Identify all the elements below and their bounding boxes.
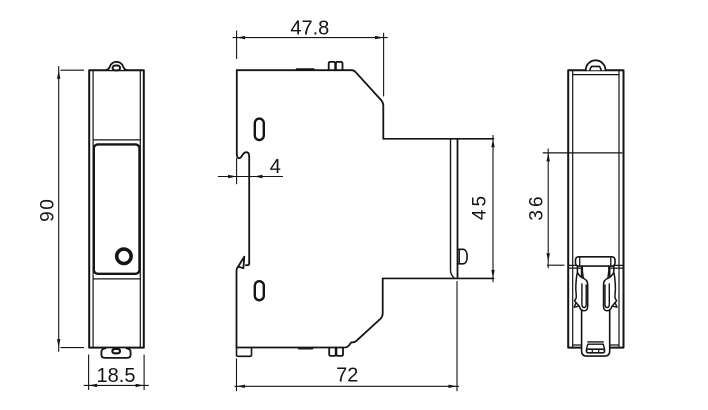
arrowheads dim 47.8 <box>237 36 246 39</box>
side view rear edge lower <box>237 267 239 348</box>
side view bottom seam bump <box>298 348 313 349</box>
arrowheads dim 72 <box>237 385 246 388</box>
rear view panel split line (36-dim top reference) <box>543 152 622 154</box>
dim 47.8 line <box>233 37 388 39</box>
arrowheads dim 90 <box>57 70 60 79</box>
side view face inner edge <box>451 139 455 278</box>
side view top-right chamfer diagonal <box>352 70 383 139</box>
dim 18.5 extension right <box>143 355 145 391</box>
arrowheads dim 4 (outside) <box>228 175 237 178</box>
side view rear edge middle (din slot top) <box>248 157 250 264</box>
svg-text:47.8: 47.8 <box>290 18 329 40</box>
front view inner left edge line <box>92 70 94 347</box>
side view cover clip bump inner line <box>458 249 460 263</box>
side view cover clip bump <box>458 249 468 263</box>
dim 72 extension left <box>236 359 238 392</box>
side view din clip spring triangle <box>238 257 244 269</box>
front view top ear slot <box>113 66 120 71</box>
side view lower oval slot <box>255 281 264 300</box>
rear view left spring side triangle <box>574 298 579 307</box>
side view upper oval slot <box>255 119 264 140</box>
dim 90 extension bottom <box>60 347 84 349</box>
rear view left prong slot <box>582 284 586 308</box>
dim 90 line <box>58 66 60 352</box>
dim 4 extension (left reuses body edge) <box>236 158 238 184</box>
rear view left prong inner stub <box>582 266 583 278</box>
side view bottom edge of face (also 45-dim bottom extension) <box>383 277 494 279</box>
rear view latch bottom bar <box>586 349 604 353</box>
rear view latch bar tick left <box>591 349 593 353</box>
side view rear step hook (4mm step) <box>237 152 249 158</box>
arrowheads dim 18.5 <box>89 384 98 387</box>
rear view inner top line <box>573 74 619 76</box>
rear view inner right line <box>618 70 620 347</box>
rear view latch top lines <box>588 342 603 344</box>
dim 36 line <box>547 149 549 269</box>
front view outer body <box>89 70 144 347</box>
side view face outer edge <box>457 139 459 279</box>
rear view clip slab <box>582 268 610 357</box>
side view step edge to face (also 45-dim top extension) <box>383 138 493 140</box>
rear view right prong inner stub <box>608 266 609 278</box>
rear view top ear outer arc <box>586 60 606 70</box>
dim 72 extension right <box>456 281 458 391</box>
dim 47.8 extension right <box>383 33 385 97</box>
rear view clip top bar left inner line <box>579 257 581 266</box>
front view bottom mounting ear <box>101 348 130 358</box>
rear view right prong slot <box>605 284 609 308</box>
rear view top ear inner arc <box>590 66 601 70</box>
svg-text:45: 45 <box>470 193 491 220</box>
arrowheads dim 36 <box>547 153 550 162</box>
dim 90 extension top <box>60 69 84 71</box>
dim 18.5 line <box>84 384 149 386</box>
rear view clip top bar <box>576 257 616 266</box>
svg-text:4: 4 <box>270 156 281 178</box>
rear view latch bar tick right <box>598 349 600 353</box>
front view indicator circle <box>117 249 131 263</box>
svg-text:36: 36 <box>527 193 548 220</box>
dim 18.5 extension left <box>88 355 90 391</box>
front view inner right edge line <box>139 70 141 347</box>
svg-text:72: 72 <box>336 365 358 387</box>
rear view right prong <box>604 266 617 311</box>
rear view latch side flares <box>586 344 604 349</box>
side view top edge <box>237 69 352 71</box>
front view seam line upper <box>93 139 140 141</box>
front view bottom ear slot <box>112 349 120 353</box>
arrowheads dim 45 <box>491 139 494 148</box>
side view bottom double tab <box>329 348 343 356</box>
front view top mounting ear <box>106 62 126 70</box>
front view label panel <box>94 144 140 273</box>
side view top double tab <box>329 62 343 70</box>
side view bottom edge <box>237 347 344 349</box>
front view seam line lower <box>93 278 140 280</box>
side view top seam bump <box>296 69 315 70</box>
rear view clip area lower crossing line <box>568 267 623 269</box>
side view bottom-left tab <box>237 348 252 357</box>
rear view outer body <box>568 70 623 347</box>
svg-text:18.5: 18.5 <box>97 365 136 387</box>
rear view inner left line <box>572 70 574 347</box>
dim 36 extension bottom <box>547 264 565 266</box>
svg-text:90: 90 <box>38 198 59 222</box>
rear view clip top bar right inner line <box>610 257 612 266</box>
dim 4 line <box>218 176 283 178</box>
rear view left prong <box>575 266 588 311</box>
rear view right spring side triangle <box>612 298 617 307</box>
dim 47.8 extension left <box>236 31 238 60</box>
rear view inner bottom line <box>573 344 619 346</box>
side view din hook foot <box>246 264 249 266</box>
dim 45 line <box>492 135 494 282</box>
rear view clip area upper crossing line <box>568 264 623 266</box>
side view left rear edge upper <box>236 70 238 153</box>
side view bottom-right step vertical <box>345 278 383 347</box>
dim 72 line <box>235 385 460 387</box>
